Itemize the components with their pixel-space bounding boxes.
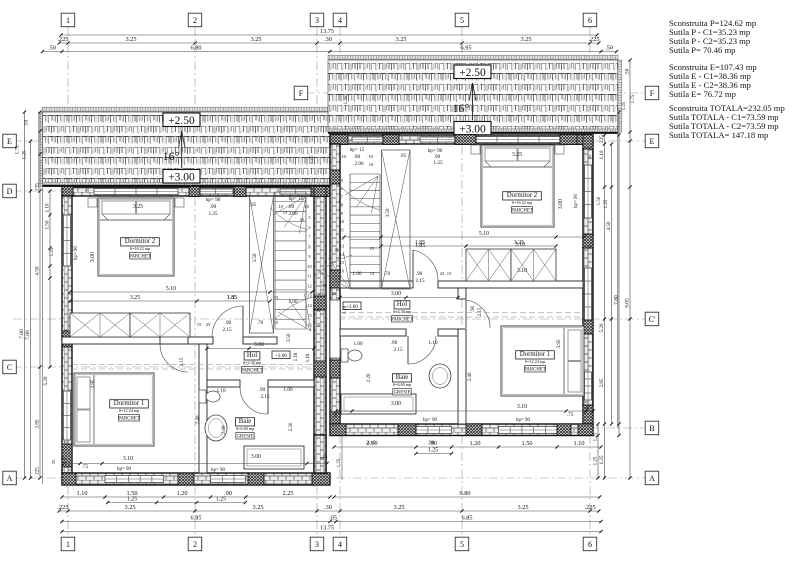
svg-text:1.25: 1.25 [22,150,28,159]
svg-text:Dormitor 1: Dormitor 1 [520,351,550,358]
svg-text:5: 5 [460,540,464,549]
svg-text:1.00: 1.00 [288,299,297,305]
svg-text:3.25: 3.25 [512,152,522,158]
svg-text:12: 12 [307,284,311,289]
svg-text:15: 15 [274,295,279,300]
svg-text:hp= 90: hp= 90 [211,468,226,473]
svg-text:6.85: 6.85 [190,515,201,522]
svg-text:1.00: 1.00 [283,387,292,393]
svg-text:hp= 15: hp= 15 [350,147,365,153]
interior dims left unit [70,291,312,293]
svg-text:hp= 90: hp= 90 [574,193,579,208]
svg-text:3.25: 3.25 [125,36,136,43]
svg-text:2.20: 2.20 [289,422,294,431]
svg-text:2.40: 2.40 [467,372,473,381]
svg-text:S=16.22 mp: S=16.22 mp [512,200,533,205]
svg-text:.70: .70 [384,272,391,277]
left unit right wall (party wall) [314,196,326,473]
svg-text:.90: .90 [210,204,217,210]
svg-text:1.10: 1.10 [343,305,348,314]
top dim axes row [59,42,599,44]
elevation label +2.50 left [163,113,200,127]
svg-text:PARCHET: PARCHET [129,255,150,260]
right unit partition wall P3R [340,329,406,336]
svg-text:15: 15 [370,271,375,276]
svg-text:7.80: 7.80 [614,295,620,305]
bottom dim axes row [59,510,599,512]
svg-text:Sutila P= 70.46 mp: Sutila P= 70.46 mp [669,45,735,55]
svg-text:PARCHET: PARCHET [118,417,139,422]
svg-text:S=12.24 mp: S=12.24 mp [119,408,140,413]
row axis D [13,190,340,192]
svg-text:B: B [649,424,654,433]
svg-text:.05: .05 [320,283,326,288]
svg-text:1.50: 1.50 [521,440,532,447]
left unit left exterior wall [62,196,72,473]
svg-text:1.25: 1.25 [604,199,609,208]
right unit partition wall P1R [340,281,413,288]
grid axis 4 [339,27,341,537]
row axis A [13,477,645,479]
svg-text:1: 1 [66,16,70,25]
svg-text:.225: .225 [57,504,68,511]
svg-text:GRESIE: GRESIE [237,435,254,440]
wardrobe left unit b [130,313,190,337]
svg-text:+3.00: +3.00 [459,123,486,135]
svg-text:1.25: 1.25 [594,456,599,465]
sink right [429,364,451,388]
svg-text:S=6.60 mp: S=6.60 mp [236,426,254,431]
row markers left [3,134,16,148]
svg-text:2: 2 [193,540,197,549]
svg-text:.225: .225 [57,36,68,43]
svg-text:Dormitor 2: Dormitor 2 [507,192,538,199]
svg-text:1.25: 1.25 [310,155,315,164]
nightstand right bed a [471,145,480,154]
grid axis 3 [316,27,318,537]
svg-text:.50: .50 [605,45,613,52]
svg-text:225: 225 [599,135,605,143]
bed dormitor1 right [501,326,584,396]
left unit baie door [267,387,269,414]
svg-text:S=3.30 mp: S=3.30 mp [393,309,411,314]
svg-text:6: 6 [588,540,592,549]
label baie left [235,418,254,426]
svg-text:F: F [650,89,655,98]
svg-text:hp= 90: hp= 90 [516,418,531,423]
stair void left [250,196,274,333]
wardrobe left unit a [70,313,130,337]
elevation label +3.00 left [163,170,200,184]
svg-text:16: 16 [300,217,305,222]
left margin dim chains [24,112,26,478]
svg-text:2.00: 2.00 [354,161,363,167]
svg-text:Sutila TOTALA= 147.18 mp: Sutila TOTALA= 147.18 mp [669,130,768,140]
svg-text:Dormitor 1: Dormitor 1 [114,400,144,407]
svg-text:D: D [7,187,13,196]
svg-text:3.00: 3.00 [558,199,564,209]
grid axis 5 [461,27,463,537]
grid axis 2 [194,27,196,537]
label hol right [394,301,410,309]
row axis C [13,366,340,368]
svg-text:1: 1 [66,540,70,549]
svg-text:3.00: 3.00 [391,401,401,407]
svg-text:1.85: 1.85 [415,243,425,249]
svg-text:3.25: 3.25 [124,504,135,511]
svg-text:.80: .80 [354,154,361,160]
svg-text:2.85: 2.85 [599,378,605,387]
svg-text:Sutila E= 76.72 mp: Sutila E= 76.72 mp [669,89,736,99]
svg-text:1.25: 1.25 [433,160,442,166]
left unit partition wall P2 [199,344,207,473]
+3.00 box hol right [343,302,361,310]
svg-text:11: 11 [307,274,311,279]
svg-text:.95: .95 [400,153,407,159]
svg-text:1.25: 1.25 [594,432,599,441]
elevation label +3.00 right [454,122,491,136]
svg-text:3.10: 3.10 [517,404,527,410]
svg-text:5: 5 [460,16,464,25]
left unit top exterior wall [62,187,330,196]
svg-text:Baie: Baie [239,418,251,425]
svg-text:3.25: 3.25 [517,504,528,511]
svg-text:35: 35 [51,459,56,464]
svg-text:+2.50: +2.50 [459,67,486,79]
left unit dormitor1 door [160,343,188,345]
svg-text:3: 3 [315,16,319,25]
svg-text:2.15: 2.15 [415,278,424,284]
svg-text:S=16.22 mp: S=16.22 mp [130,246,151,251]
bed dormitor2 right [481,145,554,227]
svg-text:.95: .95 [250,202,257,208]
svg-text:2.15: 2.15 [260,394,269,400]
svg-text:1.75: 1.75 [15,145,21,154]
svg-text:25: 25 [206,322,211,327]
bed dormitor2 left [98,198,174,276]
svg-text:.75: .75 [567,412,574,418]
svg-text:S=12.24 mp: S=12.24 mp [525,359,546,364]
svg-text:C: C [7,363,12,372]
svg-text:2.15: 2.15 [222,327,231,333]
top dim eaves row [43,51,617,53]
svg-text:1.25: 1.25 [599,455,605,464]
svg-text:3: 3 [315,540,319,549]
svg-text:PARCHET: PARCHET [511,209,532,214]
svg-text:9.05: 9.05 [625,298,631,308]
svg-text:5.10: 5.10 [166,286,176,292]
svg-text:25: 25 [440,271,445,276]
svg-text:1.25: 1.25 [216,497,226,503]
svg-text:+3.00: +3.00 [275,353,287,359]
svg-text:2.40: 2.40 [195,415,201,424]
nightstand right bed b [555,145,564,154]
svg-text:1.25: 1.25 [622,101,627,110]
svg-text:1.25: 1.25 [428,448,438,454]
svg-text:E: E [7,137,12,146]
hol dim line right [340,297,458,299]
svg-text:15: 15 [197,322,202,327]
svg-text:1.85: 1.85 [227,295,237,301]
right unit bottom exterior wall [330,424,593,436]
svg-text:15: 15 [283,210,288,215]
svg-text:35: 35 [320,456,325,461]
svg-text:1.10: 1.10 [294,352,299,361]
svg-text:16°: 16° [163,149,180,163]
row axis F [306,92,645,94]
svg-text:.10: .10 [277,204,283,209]
hol dim line left [207,348,314,350]
row axis C-prime [13,318,645,320]
svg-text:1.25: 1.25 [127,497,137,503]
svg-text:.90: .90 [416,271,423,277]
svg-text:3.25: 3.25 [395,36,406,43]
right unit dormitor1 door [465,300,467,328]
svg-text:4: 4 [338,16,342,25]
toilet right [341,349,348,362]
svg-text:2: 2 [193,16,197,25]
svg-text:3.25: 3.25 [252,504,263,511]
svg-text:1.00: 1.00 [353,341,362,347]
svg-text:2.20: 2.20 [366,373,372,382]
svg-text:A: A [7,474,13,483]
svg-text:.90: .90 [225,320,232,326]
right unit dormitor2 door [412,250,414,281]
left unit dormitor2 door [242,306,244,337]
svg-text:.05: .05 [329,515,337,522]
svg-text:Baie: Baie [396,374,408,381]
bed dormitor1 left [74,373,154,446]
party wall lower strip [314,435,326,473]
right unit entry door opening [330,300,340,358]
svg-text:13.75: 13.75 [320,525,334,532]
svg-text:4: 4 [338,540,342,549]
svg-text:1.10: 1.10 [573,440,584,447]
svg-text:3.25: 3.25 [520,36,531,43]
svg-text:3.95: 3.95 [90,379,96,388]
slope arrow right [472,83,474,120]
svg-text:.75: .75 [82,464,89,470]
svg-text:3.95: 3.95 [556,339,562,348]
svg-text:.80: .80 [288,204,295,210]
svg-text:13.75: 13.75 [320,28,334,35]
svg-text:1.25: 1.25 [344,95,349,104]
sink left [205,415,227,441]
wardrobe right unit a [466,249,511,281]
svg-text:.225: .225 [584,504,595,511]
svg-text:.90: .90 [428,440,435,446]
svg-text:+3.00: +3.00 [168,171,195,183]
svg-text:16: 16 [369,162,374,167]
svg-text:2.10: 2.10 [366,440,376,446]
svg-text:3.10: 3.10 [123,456,133,462]
svg-text:.10: .10 [340,154,346,159]
toilet left [199,390,206,403]
svg-text:1.20: 1.20 [469,440,480,447]
svg-text:.90: .90 [259,387,266,393]
right unit left exterior wall [330,144,340,424]
svg-text:hp= 90: hp= 90 [74,245,79,260]
svg-text:1.25: 1.25 [208,211,217,217]
nightstand left bed a [88,198,97,207]
grid axis 6 [589,27,591,537]
svg-text:hp= 90: hp= 90 [117,467,132,472]
interior dims right unit [344,236,584,238]
svg-text:F: F [299,89,304,98]
svg-text:hp= 90: hp= 90 [423,418,438,423]
svg-text:3.25: 3.25 [393,504,404,511]
nightstand left bed b [175,198,184,207]
svg-text:1.20: 1.20 [176,490,187,497]
svg-text:3.50: 3.50 [385,208,391,217]
svg-text:.50: .50 [625,68,631,75]
grid markers bottom [61,537,74,551]
svg-text:6: 6 [588,16,592,25]
right eave line [617,60,619,428]
svg-text:2.15: 2.15 [180,357,185,366]
svg-text:2.20: 2.20 [221,425,227,434]
label dormitor2 right [503,192,542,200]
svg-text:3.50: 3.50 [252,253,258,262]
bathtub left [244,446,304,469]
svg-text:5.20: 5.20 [599,323,605,332]
svg-text:1.00: 1.00 [352,271,361,277]
svg-text:3.00: 3.00 [254,342,264,348]
svg-text:3.00: 3.00 [90,252,96,262]
label baie right [392,374,411,382]
svg-text:.70: .70 [257,321,264,326]
bottom dim right unit row 1 [334,446,601,448]
svg-text:4.50: 4.50 [606,221,612,230]
svg-text:16°: 16° [453,101,470,115]
svg-text:.50: .50 [24,119,30,126]
svg-text:1.10: 1.10 [306,353,311,362]
label dormitor1 left [110,400,149,408]
bottom dim 6.85 row [62,521,601,523]
svg-text:3.10: 3.10 [515,242,525,248]
fixture dim line right dorm1 [336,410,593,412]
right unit staircase [350,173,380,175]
svg-text:225: 225 [35,183,41,191]
svg-text:3.25: 3.25 [250,36,261,43]
left unit partition wall P1 [62,337,160,344]
svg-text:2.85: 2.85 [35,419,41,428]
svg-text:1.10: 1.10 [599,150,605,159]
porch edge line [341,436,343,481]
svg-text:1.10: 1.10 [216,388,225,394]
svg-text:3.00: 3.00 [391,291,401,297]
row markers right [645,86,659,100]
bathtub right [341,394,416,414]
svg-text:35: 35 [61,456,66,461]
fixture dim line left dorm1 [64,463,327,465]
svg-text:1.50: 1.50 [597,196,602,205]
svg-text:15: 15 [274,320,279,325]
svg-text:2.25: 2.25 [282,490,293,497]
bottom dim right unit row 2 [416,453,452,455]
svg-text:6.85: 6.85 [461,515,472,522]
svg-text:.90: .90 [391,340,398,346]
svg-text:225: 225 [35,467,41,475]
svg-text:35: 35 [585,405,590,410]
row axis B [317,427,645,429]
svg-text:.10: .10 [367,154,373,159]
svg-text:GRESIE: GRESIE [394,391,411,396]
svg-text:E: E [650,137,655,146]
svg-text:11: 11 [340,227,344,232]
svg-text:35: 35 [333,412,338,417]
label dormitor2 left [121,238,160,246]
svg-text:6.95: 6.95 [460,45,471,52]
svg-text:1.10: 1.10 [45,203,51,212]
svg-text:PARCHET: PARCHET [391,318,412,323]
svg-text:4.50: 4.50 [35,266,41,275]
svg-text:3.10: 3.10 [517,268,527,274]
svg-text:6.80: 6.80 [190,45,201,52]
svg-text:PARCHET: PARCHET [524,368,545,373]
hol beam dash left [72,364,314,366]
svg-text:hp= 15: hp= 15 [289,196,304,202]
svg-text:1.10: 1.10 [76,490,87,497]
left roof band [43,112,331,185]
svg-text:5.10: 5.10 [479,231,489,237]
row axis E [13,140,645,142]
left unit staircase [275,191,306,193]
svg-text:15: 15 [370,246,375,251]
slope arrow left [181,131,183,168]
svg-text:3.50: 3.50 [286,333,292,342]
label hol left [244,352,260,360]
svg-text:15: 15 [447,271,452,276]
svg-text:A: A [649,474,655,483]
svg-text:Hol: Hol [397,301,407,308]
svg-text:S=6.60 mp: S=6.60 mp [393,382,411,387]
stair void right [382,150,411,289]
svg-text:Hol: Hol [247,352,257,359]
svg-text:6.80: 6.80 [459,490,470,497]
svg-text:+2.50: +2.50 [168,115,195,127]
svg-text:.30: .30 [324,36,332,43]
top dim overall 13.75 [61,34,597,36]
svg-text:5.20: 5.20 [43,376,49,385]
svg-text:2.00: 2.00 [288,211,297,217]
svg-text:.225: .225 [588,36,599,43]
grid markers top [61,13,74,27]
svg-text:.90: .90 [471,305,476,312]
left eave line [42,112,44,484]
wardrobe right unit b [511,249,556,281]
svg-text:1.10: 1.10 [428,340,437,346]
svg-text:Dormitor 2: Dormitor 2 [125,238,156,245]
svg-text:C': C' [649,315,656,324]
svg-text:1.25: 1.25 [337,458,342,467]
svg-text:7.80: 7.80 [25,330,31,340]
bottom dim left unit row 2 [108,502,246,504]
right unit baie door [407,336,409,364]
bottom dim overall 13.75 [62,531,601,533]
svg-text:1.75: 1.75 [631,94,636,103]
svg-text:hp= 90: hp= 90 [206,197,221,203]
elevation label +2.50 right [454,65,491,79]
left unit partition wall P3 [207,380,240,387]
svg-text:3.25: 3.25 [133,204,143,210]
svg-text:1.50: 1.50 [45,220,51,229]
svg-text:2.15: 2.15 [393,347,402,353]
grid axis 1 [67,27,69,537]
svg-text:3.00: 3.00 [251,454,261,460]
svg-text:3.25: 3.25 [130,295,140,301]
row marker F inner [294,86,308,100]
